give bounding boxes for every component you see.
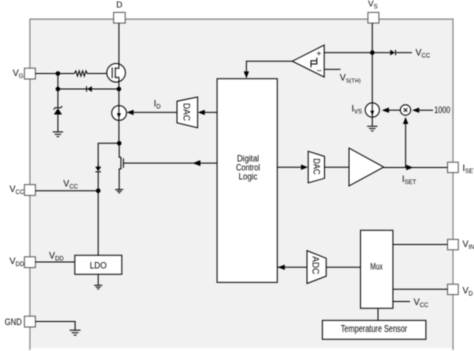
svg-text:Temperature Sensor: Temperature Sensor xyxy=(341,324,408,335)
wire LDO to ground xyxy=(97,274,99,285)
wire 1000 to X xyxy=(412,105,450,115)
current source I1 arrow xyxy=(117,113,121,118)
pin D xyxy=(114,0,126,23)
transistor Q2 (low-side NMOS) xyxy=(119,143,217,189)
wire Mux to ADC xyxy=(326,266,360,268)
wire VG pin to resistor to gate xyxy=(35,73,112,75)
multiplier X xyxy=(400,105,410,115)
node junction dot VCC xyxy=(96,188,101,193)
svg-text:VS: VS xyxy=(368,0,378,11)
LDO block xyxy=(75,255,122,274)
node junction dot top xyxy=(56,71,61,76)
wire DCL to DAC1 xyxy=(198,110,217,115)
diode D4 to VCC xyxy=(372,50,412,56)
wire source to current source to node xyxy=(118,82,120,143)
svg-text:1000: 1000 xyxy=(434,105,450,115)
transistor Q1 (PMOS pass FET in circle) xyxy=(107,64,126,83)
Digital Control Logic block xyxy=(217,79,277,283)
wire Mux to VD pin xyxy=(393,288,448,290)
comparator U3 xyxy=(292,45,324,77)
wire VCC pin to node xyxy=(35,190,98,192)
pin ISET xyxy=(448,162,474,175)
wire IVS to ground xyxy=(371,117,373,126)
node junction dot source xyxy=(117,87,122,92)
ground below zener xyxy=(53,132,63,137)
svg-text:LDO: LDO xyxy=(90,260,107,270)
DAC U2 (gate DAC) xyxy=(177,97,198,128)
svg-text:VCC: VCC xyxy=(10,184,25,196)
svg-text:ISET: ISET xyxy=(463,163,474,175)
wire comparator output to DCL xyxy=(244,61,293,78)
wire comparator minus input, label VSTH xyxy=(324,69,361,84)
pin GND xyxy=(5,316,36,327)
wire DAC2 to amp xyxy=(325,166,350,168)
wire VDD pin to LDO xyxy=(35,261,74,263)
ground below LDO xyxy=(94,285,102,289)
svg-text:VG: VG xyxy=(13,68,24,80)
pin VDD xyxy=(10,256,36,268)
Temperature Sensor block xyxy=(322,320,426,339)
zener diode Z1 xyxy=(54,89,63,132)
wire D pin to MOSFET drain xyxy=(118,23,120,64)
op-amp buffer U5 xyxy=(349,148,384,186)
ground at GND pin xyxy=(70,330,81,335)
pin VS xyxy=(368,0,379,23)
svg-text:−: − xyxy=(317,65,322,75)
wire X to IVS xyxy=(382,108,401,113)
svg-text:ADC: ADC xyxy=(310,256,320,275)
pin VG xyxy=(13,68,36,80)
wire Mux VCC input xyxy=(393,297,429,309)
svg-text:GND: GND xyxy=(5,317,22,327)
wire ADC to DCL xyxy=(277,265,307,270)
wire VS pin down to IVS xyxy=(371,23,373,103)
wire DAC1 to current source, label ID xyxy=(127,99,177,116)
Mux block xyxy=(361,230,393,308)
svg-text:+: + xyxy=(316,48,321,58)
ADC U6 xyxy=(307,251,326,284)
current source IVS xyxy=(352,103,380,117)
wire Mux to temperature sensor xyxy=(377,309,379,321)
ground below IVS xyxy=(367,126,377,131)
node junction dot VS xyxy=(370,50,375,55)
svg-text:Logic: Logic xyxy=(239,172,258,182)
current source I1 xyxy=(112,106,127,121)
DAC U4 (ISET DAC) xyxy=(308,151,324,183)
svg-text:DAC: DAC xyxy=(311,158,321,175)
wire node to VCC diode branch xyxy=(98,143,119,255)
wire DCL to DAC2 xyxy=(277,165,308,170)
pin VCC xyxy=(10,184,36,196)
node junction dot low-side xyxy=(117,141,122,146)
arrowhead on gate wire xyxy=(193,160,201,166)
svg-text:Mux: Mux xyxy=(370,261,383,271)
wire comparator plus input xyxy=(324,52,372,54)
ground below Q2 xyxy=(115,190,123,193)
wire GND pin to ground xyxy=(35,322,75,331)
diode D2 (down toward VCC node) xyxy=(95,164,101,172)
wire gate clamp branch xyxy=(58,74,119,90)
svg-text:VIN: VIN xyxy=(463,239,474,251)
diode D3 (points left on clamp wire) xyxy=(87,86,92,92)
svg-text:VD: VD xyxy=(463,285,474,297)
pin VIN xyxy=(448,239,474,251)
svg-text:DAC: DAC xyxy=(182,103,192,121)
wire ISET branch up to X xyxy=(403,117,408,168)
svg-text:VDD: VDD xyxy=(10,256,25,268)
svg-text:D: D xyxy=(116,0,122,10)
resistor R xyxy=(74,71,88,76)
wire Mux to VIN pin xyxy=(393,244,448,246)
node junction dot clamp xyxy=(56,87,61,92)
wire amp output to ISET pin xyxy=(384,165,448,186)
pin VD xyxy=(448,284,474,297)
